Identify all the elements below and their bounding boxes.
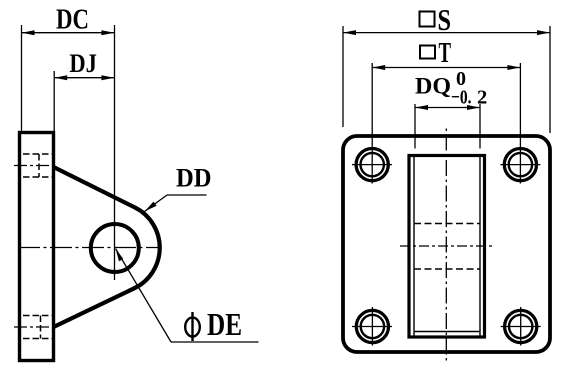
gusset boss outline xyxy=(54,167,160,327)
bolt hole bottom-left xyxy=(352,307,392,346)
centerline top bolt hole xyxy=(14,165,54,167)
top bolt hole hidden lines xyxy=(23,154,52,177)
plate side view rectangle xyxy=(20,133,54,361)
bolt hole top-right xyxy=(500,63,540,184)
svg-text:DE: DE xyxy=(207,306,242,342)
plate outline rounded square xyxy=(343,136,550,352)
dimension DJ extension line xyxy=(53,71,55,132)
hidden lines of pivot hole across slot xyxy=(414,223,480,225)
dimension S label: square symbol xyxy=(420,12,435,27)
pivot hole circle xyxy=(91,224,139,272)
central slot inner edge lines xyxy=(413,157,415,336)
label phiDE text phi symbol xyxy=(185,317,200,336)
dimension T line with arrows xyxy=(372,67,520,69)
dimension DC line with arrows xyxy=(22,32,115,34)
svg-text:T: T xyxy=(439,38,452,69)
dimension S line with arrows xyxy=(343,32,550,34)
svg-text:DJ: DJ xyxy=(69,49,97,78)
svg-text:2: 2 xyxy=(477,87,487,109)
dimension DC extension line xyxy=(21,25,23,131)
dimension DJ line with arrows xyxy=(54,77,114,79)
dimension DQ extension lines xyxy=(414,104,416,149)
centerline vertical through hole (extension line for DC/DJ) xyxy=(114,25,116,280)
dimension T label: square symbol xyxy=(420,46,435,59)
bolt hole bottom-right xyxy=(501,307,541,346)
centerline bottom bolt hole xyxy=(14,326,54,328)
horizontal centerline of plate xyxy=(400,245,493,247)
svg-text:DC: DC xyxy=(56,4,89,36)
bottom bolt hole hidden lines xyxy=(23,316,52,339)
svg-text:DD: DD xyxy=(176,164,212,193)
vertical centerline of plate xyxy=(445,129,447,365)
dimension DQ line with arrows xyxy=(415,107,480,109)
svg-text:DQ: DQ xyxy=(415,74,451,100)
centerline horizontal through hole xyxy=(18,247,161,249)
dimension S extension lines xyxy=(342,26,344,127)
central slot outer rectangle xyxy=(409,156,485,338)
bolt hole top-left xyxy=(352,63,392,184)
label phiDE leader xyxy=(116,249,171,342)
label DD leader xyxy=(167,194,207,196)
svg-text:−0.: −0. xyxy=(451,87,472,109)
svg-text:S: S xyxy=(438,2,452,37)
